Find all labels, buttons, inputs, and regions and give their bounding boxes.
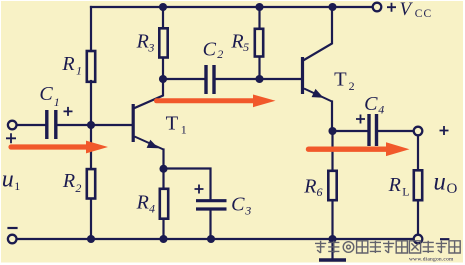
label C3 — [231, 193, 251, 217]
svg-text:T: T — [334, 69, 347, 91]
label C1 — [39, 83, 59, 109]
orange signal arrow 3 — [309, 142, 410, 156]
svg-text:4: 4 — [378, 102, 384, 116]
node T2 emitter out — [328, 127, 336, 135]
label R3 — [136, 30, 155, 54]
transistor T2 emitter with arrow — [304, 89, 332, 102]
svg-text:u: u — [2, 166, 14, 192]
svg-text:1: 1 — [14, 179, 20, 193]
resistor R6 — [328, 171, 336, 200]
svg-text:R: R — [388, 174, 401, 196]
svg-text:O: O — [447, 181, 458, 197]
node R2 bottom — [87, 235, 95, 243]
wire R5 bottom — [258, 58, 260, 80]
node R4 bottom — [159, 235, 167, 243]
label +Vcc — [400, 0, 433, 20]
wire top rail — [91, 6, 373, 8]
plus input — [6, 133, 16, 143]
+Vcc terminal — [373, 3, 382, 12]
svg-text:1: 1 — [76, 64, 82, 78]
node T2 base — [255, 75, 263, 83]
label C2 — [203, 39, 224, 61]
transistor T2 base bar — [301, 57, 304, 94]
svg-text:L: L — [402, 184, 409, 198]
svg-text:3: 3 — [147, 41, 154, 55]
label R5 — [230, 30, 249, 54]
orange signal arrow 2 — [157, 95, 276, 108]
svg-text:C: C — [231, 193, 245, 215]
label R6 — [303, 175, 322, 199]
svg-text:R: R — [303, 175, 316, 197]
label C4 — [364, 93, 384, 116]
svg-text:www.diangon.com: www.diangon.com — [409, 256, 454, 262]
capacitor C1 plates — [47, 110, 56, 139]
wire T2 collector — [304, 7, 332, 60]
resistor R5 — [255, 29, 263, 57]
svg-text:2: 2 — [349, 79, 355, 93]
wire C3 to bottom rail — [209, 211, 211, 240]
node R5 top — [255, 3, 263, 11]
svg-text:R: R — [62, 170, 75, 192]
transistor T1 base bar — [132, 104, 135, 142]
wire RL to bottom terminal — [417, 201, 419, 236]
svg-text:2: 2 — [217, 47, 223, 61]
ground — [319, 258, 346, 262]
polarity plus/minus marks — [6, 3, 449, 194]
wire bottom rail — [16, 238, 418, 240]
wire ground stem — [331, 239, 333, 258]
orange signal arrow 1 — [11, 141, 108, 154]
label RL — [388, 174, 410, 198]
output + terminal — [414, 127, 423, 136]
svg-text:C: C — [203, 39, 217, 61]
label T1 — [166, 112, 187, 136]
svg-text:C: C — [39, 83, 53, 105]
label u1 input — [2, 166, 20, 193]
wire T1 collector — [135, 79, 164, 108]
svg-text:6: 6 — [317, 185, 323, 199]
node C3 bottom — [207, 235, 215, 243]
svg-text:R: R — [136, 191, 149, 213]
svg-text:R: R — [61, 53, 74, 75]
wire R1 bottom to base node — [90, 81, 92, 125]
wire C1 to T1 base — [57, 124, 133, 126]
output - terminal — [414, 235, 423, 244]
plus C3 — [195, 185, 204, 194]
wire node to R2 — [90, 125, 92, 168]
svg-text:CC: CC — [415, 8, 432, 20]
wire emitter node to C3 — [164, 169, 211, 200]
label R4 — [136, 191, 155, 215]
wire input to C1 — [16, 124, 45, 126]
wire output terminal to RL — [417, 135, 419, 170]
node T2 collector top — [328, 3, 336, 11]
svg-text:2: 2 — [75, 181, 81, 195]
node T1 emitter — [159, 165, 167, 173]
wire T2 emitter vertical — [331, 102, 333, 132]
wire R1 top — [90, 7, 92, 51]
svg-text:u: u — [433, 168, 446, 195]
svg-text:T: T — [166, 112, 179, 134]
input + terminal — [8, 121, 17, 130]
svg-text:1: 1 — [54, 95, 60, 109]
wire node to R6 — [331, 131, 333, 170]
resistor R4 — [160, 189, 168, 219]
wire R2 to bottom rail — [90, 200, 92, 239]
label R2 — [62, 170, 82, 195]
wire R3 top — [162, 7, 164, 28]
input - terminal — [8, 235, 17, 244]
node T1 base — [87, 121, 95, 129]
svg-text:1: 1 — [181, 123, 187, 137]
plus Vcc — [387, 3, 396, 12]
resistor R1 — [87, 51, 95, 82]
plus C4 — [356, 115, 365, 124]
transistor T1 emitter with arrow — [135, 137, 164, 150]
svg-text:5: 5 — [243, 40, 249, 54]
resistor R2 — [87, 169, 95, 198]
wire output node to C4 — [333, 130, 368, 132]
wire R4 top — [162, 169, 164, 188]
resistor R3 — [159, 28, 167, 57]
svg-text:R: R — [136, 30, 149, 52]
resistor RL — [414, 170, 422, 200]
wire C2 to T2 base — [216, 78, 301, 80]
minus input — [7, 227, 17, 229]
minus output — [440, 238, 449, 240]
svg-text:R: R — [230, 30, 243, 52]
svg-text:3: 3 — [244, 203, 251, 217]
watermark — [315, 241, 460, 253]
label T2 — [334, 69, 355, 93]
capacitor C3 plates — [196, 201, 227, 209]
plus C1 — [64, 107, 73, 116]
svg-text:4: 4 — [149, 201, 155, 215]
wire R5 top — [258, 7, 260, 28]
wire C4 to output terminal — [378, 130, 414, 132]
wire R6 to bottom rail — [331, 201, 333, 239]
label R1 — [61, 53, 82, 78]
wire collector node to C2 — [163, 78, 204, 80]
node T1 collector — [159, 75, 167, 83]
capacitor C4 plates — [369, 114, 377, 146]
plus output — [440, 126, 449, 135]
wire R3 bottom — [162, 58, 164, 79]
wire R4 bottom — [162, 219, 164, 239]
svg-text:C: C — [364, 93, 378, 115]
label uO output — [433, 168, 457, 197]
wire T1 emitter vertical — [162, 150, 164, 170]
node R6 bottom / ground — [328, 235, 336, 243]
capacitor C2 plates — [206, 65, 214, 94]
node R3 top — [159, 3, 167, 11]
